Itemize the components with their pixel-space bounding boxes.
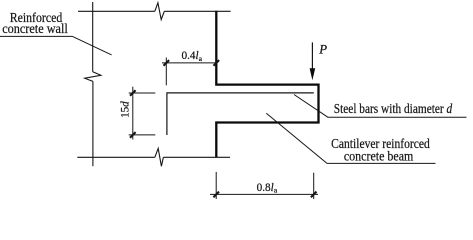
dimension 0.8la right extension line (313, 173, 315, 199)
label: Cantilever reinforced concrete beam leader line (266, 113, 327, 163)
wall left edge line (upper segment) (92, 2, 94, 72)
wall right edge and cantilever beam outline (thick) (216, 11, 318, 158)
load arrow P head (310, 68, 316, 80)
dimension 0.4la dimension line (162, 62, 216, 64)
label: Steel bars with diameter d leader line (294, 95, 328, 118)
dimension 15d dimension line (132, 87, 134, 140)
dimension 0.8la right tick (311, 192, 317, 198)
dimension 0.4la right tick (214, 60, 220, 66)
dimension 0.8la left extension line (215, 172, 217, 199)
dimension 15d top tick (130, 90, 136, 96)
load arrow P shaft (311, 42, 313, 70)
wall bottom edge line (left segment) (77, 156, 155, 158)
label: Cantilever reinforced concrete beam underline (327, 162, 436, 164)
wall top edge break symbol (155, 3, 165, 20)
svg-text:concrete beam: concrete beam (344, 149, 414, 164)
label: Reinforced concrete wall leader line (73, 36, 112, 55)
svg-text:P: P (318, 43, 327, 57)
svg-text:Steel bars with diameter d: Steel bars with diameter d (334, 101, 452, 116)
steel bar with 15d hook (167, 93, 314, 135)
svg-text:concrete wall: concrete wall (2, 21, 68, 36)
wall top edge line (left segment) (78, 10, 155, 12)
wall left edge line (lower segment) (92, 81, 94, 166)
dimension 15d top extension line (129, 92, 156, 94)
svg-text:15d: 15d (119, 101, 132, 118)
dimension 0.8la left tick (213, 192, 219, 198)
wall bottom edge break symbol (155, 148, 164, 166)
dimension 0.4la left tick (164, 60, 170, 66)
label: Steel bars with diameter d underline (328, 116, 467, 118)
dimension 15d bottom extension line (129, 134, 156, 136)
dimension 0.8la dimension line (210, 193, 318, 195)
wall left edge break symbol (85, 72, 101, 82)
label: Reinforced concrete wall underline (0, 35, 73, 37)
wall top edge line (right segment) (164, 10, 230, 12)
dimension 15d bottom tick (130, 132, 136, 138)
dimension 0.4la extension line (165, 58, 167, 86)
wall bottom edge line (right segment) (163, 156, 230, 158)
